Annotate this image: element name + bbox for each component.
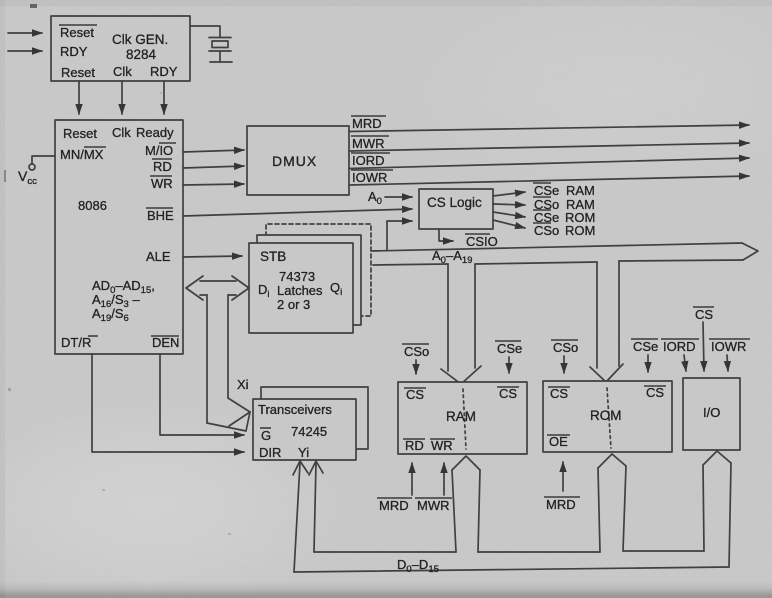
wire input arrow RDY <box>8 50 42 52</box>
svg-text:MRD: MRD <box>352 116 382 131</box>
address bus A0-A19 top line <box>372 243 742 251</box>
svg-text:DMUX: DMUX <box>272 153 317 169</box>
wire MRD out <box>349 125 749 132</box>
svg-text:Clk: Clk <box>113 64 132 79</box>
CS Logic box <box>419 189 493 229</box>
svg-text:RDY: RDY <box>60 44 88 59</box>
wire IOWR arrow into I/O <box>727 355 728 371</box>
wire RD to DMUX <box>183 166 244 168</box>
wire ALE to STB <box>183 256 242 257</box>
svg-text:OE: OE <box>549 434 568 449</box>
svg-text:CSIO: CSIO <box>466 234 498 249</box>
transceivers back box <box>261 387 368 449</box>
svg-text:RAM: RAM <box>446 409 476 424</box>
address bus bottom segments <box>373 264 448 265</box>
svg-text:MWR: MWR <box>352 136 385 151</box>
svg-text:Reset: Reset <box>60 25 94 40</box>
svg-text:Transceivers: Transceivers <box>258 402 332 417</box>
wire MWR out <box>349 143 749 151</box>
data bus arrows into transceiver Yi <box>293 461 323 572</box>
wire input arrow RESET <box>8 32 42 34</box>
8086 labels <box>18 125 179 350</box>
svg-text:Clk GEN.: Clk GEN. <box>112 32 168 47</box>
svg-text:Reset: Reset <box>63 126 97 141</box>
wire A0 to CS Logic <box>385 196 412 198</box>
svg-text:IOWR: IOWR <box>352 170 387 185</box>
CPU 8086 box <box>55 120 183 354</box>
wire M/IO to DMUX <box>183 150 244 152</box>
svg-text:MRD: MRD <box>379 498 409 513</box>
wire Reset drop to 8086 <box>78 81 80 114</box>
svg-text:Yi: Yi <box>298 445 309 460</box>
wire CSo RAM out <box>493 204 525 205</box>
wire CSIO out <box>439 229 453 241</box>
DMUX box <box>247 126 349 195</box>
Clk GEN 8284 box <box>51 16 190 81</box>
wire CSo arrow into RAM <box>415 360 417 374</box>
svg-text:ROM: ROM <box>590 408 622 423</box>
wire CSe ROM out <box>493 212 525 217</box>
svg-text:G: G <box>261 428 271 443</box>
bus branch into ROM <box>590 261 623 382</box>
address bus open arrowhead <box>742 243 758 260</box>
data bus inner line <box>314 551 456 553</box>
I/O labels <box>631 307 750 420</box>
svg-text:DIR: DIR <box>259 445 281 460</box>
AD bus double arrow <box>186 276 249 300</box>
ROM labels <box>544 340 666 512</box>
MRD MWR IORD IOWR labels <box>351 116 393 185</box>
wire IOWR out <box>349 176 749 185</box>
svg-text:CS: CS <box>646 385 664 400</box>
RAM labels <box>377 341 522 513</box>
wire MRD arrow into RAM RD <box>411 463 413 495</box>
svg-text:STB: STB <box>260 249 286 264</box>
wire CSo arrow into ROM <box>563 356 565 373</box>
svg-text:Xi: Xi <box>237 377 249 392</box>
svg-text:CS: CS <box>406 387 424 402</box>
wire CSe arrow into ROM <box>647 355 649 372</box>
wire CSe arrow into RAM <box>508 357 510 373</box>
svg-text:CS Logic: CS Logic <box>427 195 482 210</box>
RAM box <box>398 382 527 454</box>
svg-text:CS: CS <box>550 386 568 401</box>
svg-text:Reset: Reset <box>61 65 95 80</box>
latches middle box <box>257 235 361 325</box>
svg-text:WR: WR <box>431 438 453 453</box>
svg-text:RAM: RAM <box>566 183 595 198</box>
wire CSo ROM out <box>493 220 525 228</box>
latches 74373 box <box>249 243 353 333</box>
wire Clk drop to 8086 <box>121 81 123 114</box>
svg-text:RD: RD <box>405 438 424 453</box>
svg-text:MN/MX: MN/MX <box>60 147 104 162</box>
svg-text:CS: CS <box>499 386 517 401</box>
svg-text:CSo: CSo <box>404 344 429 359</box>
svg-text:IORD: IORD <box>663 339 696 354</box>
svg-text:RD: RD <box>153 159 172 174</box>
svg-text:DT/R: DT/R <box>61 335 91 350</box>
I/O box <box>683 378 740 450</box>
svg-text:74245: 74245 <box>291 424 327 439</box>
AD bus down to transceivers <box>207 295 250 431</box>
latches dashed back box <box>266 224 371 316</box>
svg-text:8284: 8284 <box>126 47 157 62</box>
svg-text:Clk: Clk <box>112 125 131 140</box>
crystal Y1 <box>209 38 232 63</box>
svg-text:74373: 74373 <box>279 269 315 284</box>
wire WR to DMUX <box>183 184 244 185</box>
svg-text:IORD: IORD <box>352 153 385 168</box>
svg-text:CSo: CSo <box>534 223 559 238</box>
svg-text:IOWR: IOWR <box>711 339 746 354</box>
data bus outer line D0-D15 <box>294 567 729 572</box>
svg-text:DEN: DEN <box>152 335 179 350</box>
wire IORD out <box>349 158 749 169</box>
wire CS arrow into I/O <box>703 322 704 371</box>
crystal X1 wire <box>190 26 220 37</box>
svg-text:RDY: RDY <box>150 64 178 79</box>
svg-text:Ready: Ready <box>136 125 174 140</box>
svg-text:ALE: ALE <box>146 249 171 264</box>
svg-text:WR: WR <box>151 176 173 191</box>
ROM bank divider dashed <box>607 388 611 448</box>
svg-text:BHE: BHE <box>147 208 174 223</box>
data bus chevron into ROM <box>598 454 626 552</box>
ROM box <box>543 381 672 452</box>
wire MWR arrow into RAM WR <box>443 463 445 495</box>
latches labels <box>258 249 342 312</box>
svg-text:ROM: ROM <box>565 223 595 238</box>
svg-text:CSe: CSe <box>534 183 559 198</box>
data bus chevron into RAM <box>452 456 480 552</box>
wire IORD arrow into I/O <box>684 355 686 371</box>
svg-text:2 or 3: 2 or 3 <box>277 297 310 312</box>
svg-text:CSo: CSo <box>553 340 578 355</box>
svg-text:CSe: CSe <box>633 339 658 354</box>
scan artifacts <box>4 4 231 535</box>
transceiver labels <box>258 402 332 460</box>
svg-text:I/O: I/O <box>703 405 720 420</box>
RAM bank divider dashed <box>463 389 466 449</box>
svg-text:M/IO: M/IO <box>145 143 173 158</box>
wire CSe RAM out <box>493 192 525 196</box>
wire address tap to CS Logic <box>387 221 412 250</box>
Vcc node <box>29 156 55 170</box>
svg-text:8086: 8086 <box>78 198 107 213</box>
Clk GEN labels <box>59 25 178 80</box>
wire DEN to G <box>160 354 244 435</box>
svg-text:CSe: CSe <box>497 341 522 356</box>
wire DT/R to DIR <box>92 354 244 452</box>
svg-text:MWR: MWR <box>417 498 450 513</box>
svg-text:CS: CS <box>695 307 713 322</box>
svg-text:Latches: Latches <box>277 283 323 298</box>
CS outputs labels <box>533 183 595 238</box>
transceivers 74245 box <box>253 399 356 460</box>
wire BHE to CS Logic <box>183 209 412 216</box>
wire RDY drop to 8086 <box>163 81 165 114</box>
data bus chevron into I/O <box>703 451 731 567</box>
wire MRD arrow into ROM OE <box>562 462 564 491</box>
svg-text:MRD: MRD <box>546 497 576 512</box>
bus branch into RAM <box>441 264 481 384</box>
